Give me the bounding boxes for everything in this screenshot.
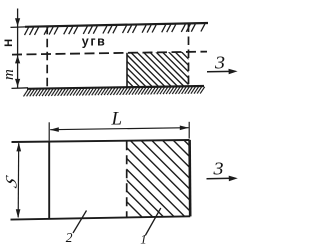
svg-text:3: 3 bbox=[214, 53, 225, 72]
svg-text:3: 3 bbox=[212, 160, 223, 179]
svg-text:H: H bbox=[3, 39, 15, 47]
svg-text:m: m bbox=[1, 69, 17, 80]
svg-text:2: 2 bbox=[66, 230, 73, 245]
svg-text:1: 1 bbox=[140, 232, 147, 245]
svg-text:S: S bbox=[2, 172, 20, 192]
svg-text:угв: угв bbox=[82, 35, 107, 49]
svg-text:L: L bbox=[111, 109, 123, 130]
